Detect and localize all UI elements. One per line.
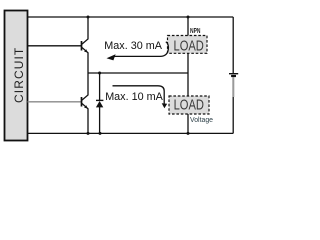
diode D1 cathode wire (99, 73, 101, 100)
node bottom rail / Q2 emitter (87, 132, 90, 135)
main circuit block (5, 11, 28, 141)
wire Q1 base (28, 45, 82, 47)
wire right rail lower (232, 97, 234, 133)
transistor Q2 emitter arrow (84, 105, 88, 108)
battery BT1 short plate (231, 75, 236, 77)
arrow current Max30 (left) (115, 42, 169, 57)
diode D1 triangle (96, 101, 103, 107)
wire right rail upper (232, 17, 234, 73)
diode D1 cathode bar (96, 99, 103, 101)
wire bottom 0V rail (28, 132, 234, 134)
wire NPN load drop (187, 17, 189, 36)
wire Q2 base (gray) (28, 101, 82, 103)
load LOAD2 (Voltage) box (169, 96, 209, 114)
node bottom rail / D1 (99, 132, 102, 135)
transistor Q2 emitter wire (82, 103, 88, 133)
svg-text:Max. 10 mA: Max. 10 mA (105, 91, 163, 103)
battery BT1 long plate (229, 73, 238, 75)
node top rail / Q1 collector (87, 16, 90, 19)
node bottom rail / LOAD2 (187, 132, 190, 135)
wire LOAD1 bottom to node (187, 53, 189, 96)
transistor Q1 emitter wire (82, 47, 88, 73)
diode D1 anode wire (99, 107, 101, 133)
battery BT1 body (gray) (232, 77, 234, 97)
transistor Q1 base bar (81, 41, 83, 51)
node top rail / LOAD1 (187, 16, 190, 19)
arrow current Max10 (down) (113, 86, 165, 104)
node output / D1 (98, 72, 101, 75)
transistor Q2 collector wire (82, 73, 88, 100)
wire LOAD2 bottom drop (187, 114, 189, 133)
transistor Q1 collector wire (82, 17, 88, 44)
arrowhead Max30 (107, 54, 116, 60)
svg-text:LOAD: LOAD (174, 96, 204, 113)
svg-text:NPN: NPN (190, 27, 201, 35)
load LOAD1 (NPN) box (168, 36, 208, 54)
transistor Q1 emitter arrow (84, 49, 88, 52)
arrowhead Max10 (162, 103, 168, 108)
svg-text:CIRCUIT: CIRCUIT (12, 47, 26, 103)
svg-text:Voltage: Voltage (190, 117, 213, 124)
svg-text:LOAD: LOAD (174, 37, 204, 54)
transistor Q2 base bar (81, 97, 83, 107)
wire top +V rail (28, 16, 234, 18)
wire output node horizontal (88, 72, 188, 74)
svg-text:Max. 30 mA: Max. 30 mA (104, 40, 162, 52)
